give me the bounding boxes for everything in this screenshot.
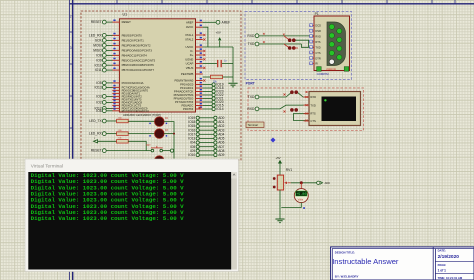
node IO4-AD6 [190,141,225,145]
svg-text:+5.00: +5.00 [296,193,306,197]
wire crossover loop [294,40,314,47]
svg-text:DESIGN TITLE:: DESIGN TITLE: [335,250,355,254]
svg-text:Virtual Terminal: Virtual Terminal [31,163,63,168]
terminal IO2 [96,101,106,105]
svg-text:ADD: ADD [325,182,330,185]
node IO16-AD3 [188,128,224,132]
terminal output text [31,172,185,222]
ground (U1 rail) [228,83,237,87]
resistor R2 330 [117,117,129,122]
terminal MOSI [93,44,106,48]
svg-text:UVCC: UVCC [186,45,194,49]
svg-text:Volts: Volts [298,197,304,201]
terminal IO11 [95,68,106,72]
wire RV1 bottom [279,190,281,219]
svg-text:DTR: DTR [315,56,320,60]
wire [106,110,113,112]
terminal IO20 [203,101,212,103]
terminal IO10 [95,63,107,67]
wire [106,59,113,61]
terminal (button out) [170,149,173,152]
terminal input arrow [94,138,98,143]
wire RV1 wiper to AD0 [291,181,317,184]
svg-text:RESET: RESET [91,20,102,24]
svg-text:Terminal: Terminal [248,123,259,127]
svg-text:1 of 1: 1 of 1 [438,269,447,273]
svg-text:IO11: IO11 [95,68,102,72]
resistor R1 (HWB pulldown) [203,75,233,83]
svg-text:RXD: RXD [247,34,255,38]
U1 left pin stubs and labels [112,20,155,113]
svg-text:PB2/PDI/MOSI/PCINT2: PB2/PDI/MOSI/PCINT2 [122,43,151,47]
svg-text:IO10: IO10 [95,63,102,67]
instrument VIRTUAL TERMINAL [304,92,361,126]
resistor R4 [117,138,129,143]
svg-text:TXD: TXD [315,45,320,49]
svg-text:PORT: PORT [246,82,255,86]
wire [106,44,113,46]
svg-text:IO6: IO6 [96,109,101,113]
connector P1 COMPIM [309,12,349,76]
label Terminal [246,122,264,128]
wire [106,82,113,84]
svg-text:AREF: AREF [186,20,194,24]
svg-text:XTAL1: XTAL1 [185,33,194,37]
svg-text:UGND: UGND [185,57,193,61]
svg-text:RESET: RESET [122,20,131,24]
svg-text:+5V: +5V [216,30,221,34]
wire RXD to P1 [259,35,314,37]
virtual terminal window [25,159,239,272]
terminal IO15 [203,105,212,107]
svg-text:DATE:: DATE: [438,249,446,253]
title block [331,247,474,280]
svg-text:DCD: DCD [315,24,321,28]
node IO18-AD1 [188,120,224,124]
wire [128,120,154,122]
svg-text:PB0/SS/PCINT0: PB0/SS/PCINT0 [122,33,143,37]
terminal IO18 [203,87,212,89]
svg-text:IO5: IO5 [96,81,101,85]
sheet border tick marks [70,0,456,256]
svg-text:PF4/ADC4/TCK: PF4/ADC4/TCK [174,90,194,94]
svg-text:IO3: IO3 [96,95,101,99]
node marker diamond [270,137,275,142]
svg-text:IO8: IO8 [96,54,101,58]
terminal IO19 [203,84,212,86]
terminal RXD (vt) [247,107,258,111]
wire [106,64,113,66]
terminal MISO [93,49,106,53]
terminal IO3 [96,95,106,99]
svg-text:Digital Value: 1023.00 count V: Digital Value: 1023.00 count Voltage: 5.… [31,215,185,222]
potentiometer RV1 [273,168,293,190]
svg-text:D-: D- [190,49,193,53]
svg-text:IO10: IO10 [188,153,195,157]
wire [106,133,117,135]
svg-text:PB3/PDO/MISO/PCINT3: PB3/PDO/MISO/PCINT3 [122,48,153,52]
wire [106,86,113,88]
svg-text:PC6/OC3A/OC4A: PC6/OC3A/OC4A [122,81,144,85]
terminal LED_RX [89,34,106,38]
wire [106,34,113,36]
button [146,145,163,152]
svg-text:TXD: TXD [248,95,255,99]
svg-text:VBUS: VBUS [186,66,194,70]
wire [128,141,146,150]
terminal IO22 [203,94,212,96]
svg-text:LED_RX: LED_RX [89,132,103,136]
terminal IO9 [96,58,106,62]
node IO15-AD2 [188,124,224,128]
svg-text:COMPIM: COMPIM [317,72,329,76]
svg-text:LED_RX: LED_RX [89,34,103,38]
svg-text:MISO: MISO [93,49,102,53]
svg-text:BY: W.ELBADRY: BY: W.ELBADRY [335,275,359,279]
node IO13-AD5 [188,137,224,141]
terminal LED_RX (led row) [89,132,106,136]
resistor R3 330 [117,130,129,135]
U1 body ATMEGA32U4 [119,19,195,112]
svg-text:RST: RST [146,145,151,147]
svg-text:PF6/ADC6/TDO: PF6/ADC6/TDO [174,97,194,101]
terminal SCK [95,39,106,43]
svg-text:PB6/OC1B/OC4B/PCINT6: PB6/OC1B/OC4B/PCINT6 [122,63,155,67]
svg-text:CTS: CTS [315,51,320,55]
svg-text:ERROR: ERROR [327,67,336,71]
svg-text:RV1: RV1 [286,168,293,172]
capacitor C1 (UCAP) [203,60,233,67]
wire [164,122,174,159]
terminal TXD (port) [248,42,259,46]
power +5V (U1) [216,30,222,47]
svg-text:D+: D+ [190,53,194,57]
Terminal subsystem dashed boundary [248,88,364,131]
PORT subsystem dashed boundary [245,11,352,79]
svg-text:PB1/SCK/PCINT1: PB1/SCK/PCINT1 [122,38,145,42]
wire [106,120,117,122]
terminal IO8 [96,54,106,58]
svg-text:TXD: TXD [248,42,255,46]
terminal RESET [91,20,107,24]
junction dots [290,108,298,112]
ground (RV1) [275,219,284,223]
svg-text:PB5/OC1A/ADC12/PCINT5: PB5/OC1A/ADC12/PCINT5 [122,58,156,62]
svg-text:U1: U1 [123,13,128,17]
terminal ADD output [317,181,330,185]
LED D3 [149,135,167,137]
LED D2 [149,123,167,125]
label ARDUINO LEONARDO [123,113,161,117]
terminal IO14 [203,108,212,110]
terminal RESET (button row) [91,149,107,153]
svg-text:PD7/T0/OC4D/ADC10: PD7/T0/OC4D/ADC10 [122,109,150,113]
svg-text:+5V: +5V [275,156,280,160]
svg-text:ARDUINO LEONARDO (TQFP): ARDUINO LEONARDO (TQFP) [123,113,161,117]
wire [106,101,113,103]
svg-text:IO13: IO13 [95,86,102,90]
svg-text:AREF: AREF [222,20,231,24]
wire [98,140,117,142]
wire [106,39,113,41]
svg-text:Instructable Answer: Instructable Answer [332,257,399,266]
wire UVCC rail [203,47,233,83]
wire [164,133,175,135]
wire RTS-CTS loop [294,114,310,121]
svg-text:PF1/ADC1: PF1/ADC1 [180,86,194,90]
terminal LED_TX (led row) [89,119,106,123]
terminal RXD (port) [247,34,258,38]
svg-text:TXD: TXD [310,103,315,107]
svg-text:RI: RI [315,62,318,66]
node IO19-AD0 [188,116,224,120]
svg-text:PF7/ADC7/TDI: PF7/ADC7/TDI [175,100,194,104]
terminal IO21 [203,98,212,100]
wire AVCC [203,27,208,47]
svg-text:PAGE:: PAGE: [438,263,447,267]
wire [128,133,154,135]
wire voltmeter gnd [281,207,305,209]
svg-text:3: 3 [70,46,72,50]
svg-text:2: 2 [70,15,72,19]
wire [259,105,309,109]
junction dots [290,90,298,94]
svg-text:TIME: 10:21:01 AM: TIME: 10:21:01 AM [438,276,463,280]
U1 right pin stubs and labels [174,20,206,111]
terminal IO23 [203,91,212,93]
terminal AREF [203,21,217,23]
svg-text:RXD: RXD [315,35,321,39]
svg-text:AD9: AD9 [218,153,224,157]
svg-text:DSR: DSR [315,29,321,33]
terminal TXD (vt) [248,95,259,99]
terminal IO5 [96,81,106,85]
svg-text:UCAP: UCAP [186,62,194,66]
voltmeter [294,183,308,208]
label PORT [246,82,255,86]
svg-text:PE2/HWB: PE2/HWB [181,72,194,76]
LED D1 (partly hidden) [155,156,165,166]
node IO8-AD7 [190,145,225,149]
wire [106,54,113,56]
svg-text:IO9: IO9 [96,58,101,62]
svg-text:LED_TX: LED_TX [89,119,102,123]
terminal IO6 [96,109,106,113]
svg-text:CTS: CTS [310,119,316,123]
wire [106,95,113,97]
svg-text:PF0/ADC0: PF0/ADC0 [180,83,194,87]
svg-text:PB7/OC0A/OC1C/PCINT7: PB7/OC0A/OC1C/PCINT7 [122,68,155,72]
svg-text:PF5/ADC5/TMS: PF5/ADC5/TMS [174,93,194,97]
node bus arrow [199,107,202,109]
wire [106,21,113,23]
svg-text:MOSI: MOSI [93,44,102,48]
svg-text:PE6/ADC: PE6/ADC [182,104,194,108]
svg-text:P1: P1 [315,12,319,16]
wire TXD to P1 [259,43,302,45]
svg-text:RTS: RTS [310,112,316,116]
wire [163,150,171,152]
svg-text:IO14: IO14 [216,107,223,111]
wire [106,49,113,51]
svg-text:IO2: IO2 [96,101,101,105]
terminal IO13 [95,86,107,90]
wire [259,92,309,97]
wire [106,69,113,71]
svg-text:RXD: RXD [247,107,255,111]
svg-text:RXD: RXD [310,95,316,99]
terminal IO12 [95,107,107,111]
svg-text:RTS: RTS [315,40,320,44]
svg-text:RESET: RESET [91,149,102,153]
svg-text:2/19/2020: 2/19/2020 [438,254,460,260]
wire [106,107,113,109]
svg-text:PE6/INT6/AIN0: PE6/INT6/AIN0 [174,79,193,83]
arduino leonardo module dashed boundary [81,11,241,160]
svg-text:AVCC: AVCC [186,25,193,29]
microcontroller U1 [123,13,128,17]
power +5V (RV1) [275,156,282,175]
node IO10-AD9 [188,153,224,157]
node IO9-AD8 [190,149,225,153]
svg-text:PF0/TDI: PF0/TDI [183,107,193,111]
red x pin marks [284,91,308,122]
svg-text:PB4/ADC11/PCINT4: PB4/ADC11/PCINT4 [122,53,148,57]
svg-text:XTAL2: XTAL2 [185,38,194,42]
wire [106,150,151,152]
junction dots [283,34,298,50]
svg-text:SCK: SCK [95,39,103,43]
node IO17-AD4 [188,132,224,136]
